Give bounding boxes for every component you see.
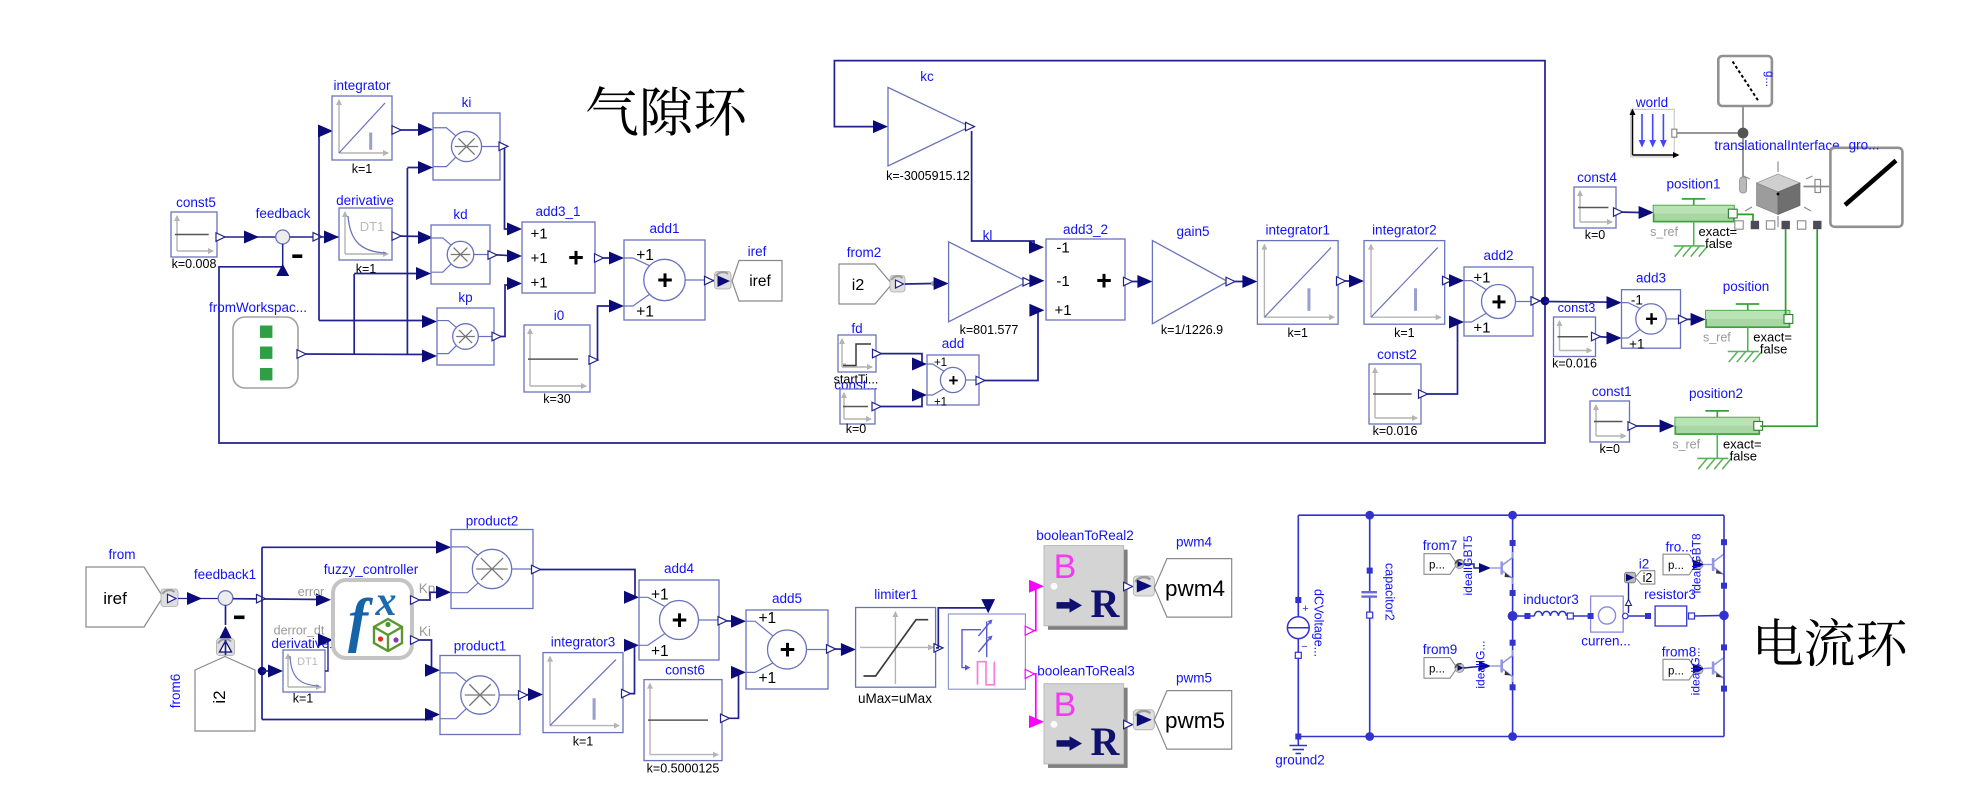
svg-text:feedback1: feedback1 <box>194 567 256 582</box>
svg-text:+: + <box>672 605 688 635</box>
svg-text:integrator3: integrator3 <box>551 635 616 650</box>
svg-text:iref: iref <box>748 244 767 259</box>
svg-text:+1: +1 <box>934 397 947 409</box>
svg-text:dCVoltage...: dCVoltage... <box>1312 589 1326 657</box>
svg-text:-1: -1 <box>1056 240 1069 257</box>
svg-text:+1: +1 <box>530 250 547 267</box>
svg-text:-1: -1 <box>1631 293 1643 308</box>
svg-text:from6: from6 <box>168 674 183 709</box>
svg-text:product1: product1 <box>454 639 507 654</box>
svg-text:add2: add2 <box>1483 248 1513 263</box>
svg-text:i0: i0 <box>554 308 565 323</box>
svg-text:k=0: k=0 <box>1585 228 1606 242</box>
svg-text:add5: add5 <box>772 591 802 606</box>
svg-text:world: world <box>1635 95 1668 110</box>
svg-text:idealIGBT5: idealIGBT5 <box>1461 535 1475 595</box>
svg-text:curren...: curren... <box>1581 634 1631 649</box>
svg-text:k=0.016: k=0.016 <box>1373 424 1418 438</box>
svg-text:booleanToReal3: booleanToReal3 <box>1037 664 1135 679</box>
svg-text:+1: +1 <box>651 643 669 660</box>
svg-text:+1: +1 <box>1473 270 1490 287</box>
svg-text:+1: +1 <box>1629 337 1644 352</box>
svg-text:const6: const6 <box>665 663 705 678</box>
svg-text:derivative: derivative <box>336 193 394 208</box>
svg-text:from: from <box>109 547 136 562</box>
svg-text:gro...: gro... <box>1849 138 1880 153</box>
svg-text:+: + <box>1302 603 1308 615</box>
svg-text:k=1: k=1 <box>352 162 373 176</box>
svg-text:R: R <box>1091 581 1121 626</box>
svg-text:false: false <box>1760 342 1787 357</box>
svg-text:error: error <box>298 585 324 599</box>
svg-text:idealIG...: idealIG... <box>1474 641 1488 689</box>
svg-text:+1: +1 <box>530 275 547 292</box>
svg-text:add3: add3 <box>1636 271 1666 286</box>
svg-text:DT1: DT1 <box>360 219 385 234</box>
svg-text:k=30: k=30 <box>543 392 571 406</box>
svg-text:from2: from2 <box>847 245 882 260</box>
svg-text:k=1: k=1 <box>293 692 314 706</box>
svg-text:i2: i2 <box>1643 571 1653 585</box>
svg-text:p...: p... <box>1668 665 1684 677</box>
svg-text:+: + <box>1491 286 1506 316</box>
svg-text:k=0: k=0 <box>846 422 867 436</box>
svg-text:booleanToReal2: booleanToReal2 <box>1036 528 1134 543</box>
svg-text:k=1: k=1 <box>573 735 594 749</box>
svg-text:ki: ki <box>462 95 472 110</box>
svg-text:false: false <box>1705 236 1732 251</box>
svg-text:ground2: ground2 <box>1275 753 1325 768</box>
svg-text:s_ref: s_ref <box>1650 225 1678 239</box>
svg-text:add3_2: add3_2 <box>1063 222 1108 237</box>
svg-text:s_ref: s_ref <box>1703 331 1731 345</box>
svg-text:k=1/1226.9: k=1/1226.9 <box>1161 323 1223 337</box>
svg-text:const2: const2 <box>1377 347 1417 362</box>
svg-text:from7: from7 <box>1423 538 1458 553</box>
svg-text:pwm5: pwm5 <box>1165 708 1225 733</box>
svg-text:translationalInterface: translationalInterface <box>1714 138 1839 153</box>
svg-text:k=801.577: k=801.577 <box>960 323 1019 337</box>
svg-text:p...: p... <box>1429 560 1445 572</box>
svg-text:position: position <box>1723 279 1770 294</box>
svg-text:integrator2: integrator2 <box>1372 223 1437 238</box>
svg-text:i2: i2 <box>210 690 229 703</box>
svg-text:R: R <box>1091 719 1121 764</box>
svg-text:g...: g... <box>1763 71 1775 87</box>
svg-text:product2: product2 <box>466 514 519 529</box>
svg-text:uMax=uMax: uMax=uMax <box>858 691 932 706</box>
svg-text:add: add <box>942 336 965 351</box>
svg-text:+1: +1 <box>758 670 776 687</box>
svg-text:+: + <box>1096 266 1112 296</box>
svg-text:const4: const4 <box>1577 170 1617 185</box>
svg-text:inductor3: inductor3 <box>1523 592 1579 607</box>
svg-text:integrator: integrator <box>333 78 391 93</box>
svg-text:kc: kc <box>920 69 934 84</box>
svg-text:fromWorkspac...: fromWorkspac... <box>209 300 307 315</box>
svg-text:p...: p... <box>1668 560 1684 572</box>
svg-text:false: false <box>1730 449 1757 464</box>
svg-text:const1: const1 <box>1592 384 1632 399</box>
svg-text:+: + <box>1645 306 1658 331</box>
svg-text:idealIG...: idealIG... <box>1688 647 1702 695</box>
svg-text:limiter1: limiter1 <box>874 587 918 602</box>
svg-text:i2: i2 <box>852 277 865 294</box>
svg-text:s_ref: s_ref <box>1672 438 1700 452</box>
svg-text:feedback: feedback <box>256 206 311 221</box>
svg-text:+1: +1 <box>758 610 776 627</box>
svg-text:pwm4: pwm4 <box>1165 576 1225 601</box>
svg-text:from9: from9 <box>1423 642 1458 657</box>
svg-text:iref: iref <box>103 589 127 608</box>
svg-text:const3: const3 <box>1558 300 1596 315</box>
svg-text:position2: position2 <box>1689 386 1743 401</box>
svg-text:+: + <box>780 635 796 665</box>
svg-text:k=1: k=1 <box>1287 326 1308 340</box>
svg-text:kp: kp <box>458 290 472 305</box>
svg-text:startTi...: startTi... <box>834 373 879 387</box>
svg-text:k=0.016: k=0.016 <box>1552 357 1597 371</box>
svg-text:integrator1: integrator1 <box>1265 223 1330 238</box>
svg-text:+1: +1 <box>530 226 547 243</box>
svg-text:iref: iref <box>749 273 771 290</box>
svg-text:pwm4: pwm4 <box>1176 535 1213 550</box>
svg-text:B: B <box>1054 548 1077 586</box>
svg-text:+1: +1 <box>636 304 654 321</box>
svg-text:k=0: k=0 <box>1599 442 1620 456</box>
svg-text:+1: +1 <box>651 586 669 603</box>
svg-text:x: x <box>375 579 397 625</box>
svg-text:capacitor2: capacitor2 <box>1383 563 1397 621</box>
svg-text:fd: fd <box>851 321 862 336</box>
svg-text:idealIGBT8: idealIGBT8 <box>1689 533 1703 593</box>
svg-text:+: + <box>657 265 673 295</box>
svg-text:−: − <box>1301 641 1307 653</box>
svg-text:add4: add4 <box>664 561 695 576</box>
svg-text:k=1: k=1 <box>1394 326 1415 340</box>
svg-text:+1: +1 <box>934 357 947 369</box>
svg-text:const5: const5 <box>176 195 216 210</box>
svg-text:Ki: Ki <box>419 624 431 639</box>
svg-text:+1: +1 <box>1473 320 1490 337</box>
svg-text:k=0.5000125: k=0.5000125 <box>647 762 720 776</box>
svg-text:i2: i2 <box>1639 557 1650 572</box>
svg-text:B: B <box>1054 686 1077 724</box>
svg-text:position1: position1 <box>1666 177 1720 192</box>
svg-text:p...: p... <box>1429 664 1445 676</box>
svg-text:resistor3: resistor3 <box>1644 587 1696 602</box>
svg-text:+: + <box>949 371 959 390</box>
svg-text:+1: +1 <box>1054 302 1071 319</box>
svg-text:add3_1: add3_1 <box>535 204 580 219</box>
svg-text:add1: add1 <box>649 221 679 236</box>
svg-text:+1: +1 <box>636 247 654 264</box>
svg-text:Kp: Kp <box>419 581 436 596</box>
svg-text:kd: kd <box>453 207 467 222</box>
svg-text:DT1: DT1 <box>297 656 318 668</box>
svg-text:-1: -1 <box>1056 273 1069 290</box>
svg-text:gain5: gain5 <box>1176 224 1209 239</box>
svg-text:k=0.008: k=0.008 <box>172 257 217 271</box>
svg-text:pwm5: pwm5 <box>1176 671 1212 686</box>
svg-text:fuzzy_controller: fuzzy_controller <box>324 562 419 577</box>
svg-text:k=-3005915.12: k=-3005915.12 <box>886 169 970 183</box>
svg-text:kl: kl <box>983 228 993 243</box>
svg-text:+: + <box>568 243 584 273</box>
